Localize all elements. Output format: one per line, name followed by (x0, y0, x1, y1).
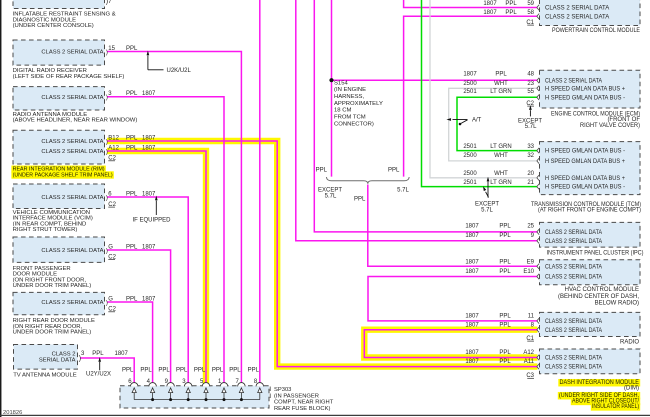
module radio antenna module caption (13, 112, 138, 124)
module radio antenna module (13, 87, 156, 110)
svg-text:(LEFT SIDE OF REAR PACKAGE SHE: (LEFT SIDE OF REAR PACKAGE SHELF) (13, 74, 125, 80)
engine option selector brace EXCEPT 5.7L / 5.7L (326, 177, 409, 184)
module instrument panel cluster IPC (465, 222, 640, 247)
module digital radio receiver (13, 40, 138, 65)
svg-text:CLASS 2 SERIAL DATA: CLASS 2 SERIAL DATA (41, 149, 103, 155)
wire PPL 1807 radio antenna pin3 to SP303 pin1 (107, 97, 224, 384)
svg-text:S154: S154 (334, 80, 348, 86)
svg-text:CLASS 2 SERIAL DATA: CLASS 2 SERIAL DATA (545, 79, 602, 85)
svg-text:201826: 201826 (3, 410, 22, 416)
svg-text:59: 59 (527, 1, 534, 7)
module engine control module ECM (463, 70, 640, 108)
SP303 pin 4 connector (149, 383, 157, 400)
svg-text:RIGHT STRUT TOWER): RIGHT STRUT TOWER) (13, 227, 78, 233)
svg-text:1807: 1807 (142, 135, 156, 141)
svg-text:CLASS 2 SERIAL DATA: CLASS 2 SERIAL DATA (545, 365, 602, 371)
svg-text:PPL: PPL (316, 167, 328, 173)
svg-text:LT GRN: LT GRN (490, 180, 511, 186)
svg-text:2501: 2501 (463, 144, 477, 150)
module radio (465, 312, 640, 336)
svg-text:CLASS 2 SERIAL DATA: CLASS 2 SERIAL DATA (545, 239, 602, 245)
svg-text:2501: 2501 (463, 180, 477, 186)
svg-text:1807: 1807 (465, 350, 479, 356)
svg-text:1807: 1807 (465, 224, 479, 230)
SP303 pin 9 connector (167, 383, 175, 400)
svg-text:E10: E10 (523, 269, 534, 275)
svg-text:HARNESS,: HARNESS, (334, 94, 364, 100)
svg-text:A/T: A/T (472, 118, 482, 124)
svg-text:TV ANTENNA MODULE: TV ANTENNA MODULE (13, 373, 77, 379)
svg-text:CLASS 2 SERIAL DATA: CLASS 2 SERIAL DATA (41, 95, 103, 101)
svg-text:(DIM): (DIM) (624, 386, 639, 392)
SP303 bus junction dot (240, 398, 243, 401)
svg-text:1807: 1807 (142, 191, 156, 197)
wire PPL 1807 right rear door pinG to SP303 pin4 (107, 302, 153, 384)
splice pack SP303 label (270, 387, 334, 413)
svg-text:(ABOVE HEADLINER, NEAR REAR WI: (ABOVE HEADLINER, NEAR REAR WINDOW) (13, 118, 138, 124)
svg-text:58: 58 (527, 10, 534, 16)
svg-text:G: G (108, 296, 113, 302)
wire PPL 1807 splice S154 to ECM pin48 (332, 79, 538, 81)
svg-text:32: 32 (527, 153, 534, 159)
svg-text:PPL: PPL (122, 368, 134, 374)
module dash integration module DIM caption (558, 379, 640, 411)
svg-text:(IN PASSENGER: (IN PASSENGER (274, 393, 319, 399)
svg-text:PPL: PPL (499, 224, 511, 230)
svg-text:H SPEED GMLAN DATA BUS -: H SPEED GMLAN DATA BUS - (545, 95, 625, 101)
svg-text:RADIO: RADIO (620, 339, 639, 345)
svg-text:POWERTRAIN CONTROL MODULE: POWERTRAIN CONTROL MODULE (552, 28, 640, 34)
svg-text:PPL: PPL (92, 351, 104, 357)
svg-text:1807: 1807 (465, 359, 479, 365)
svg-text:20: 20 (527, 171, 534, 177)
module HVAC control module caption (558, 287, 639, 307)
svg-text:H SPEED GMLAN DATA BUS -: H SPEED GMLAN DATA BUS - (545, 185, 625, 191)
svg-text:PPL: PPL (194, 368, 206, 374)
page border left edge (0, 0, 2, 417)
svg-text:CLASS 2 SERIAL DATA: CLASS 2 SERIAL DATA (545, 6, 609, 12)
svg-text:CLASS 2 SERIAL DATA: CLASS 2 SERIAL DATA (41, 300, 103, 306)
svg-text:(IN ENGINE: (IN ENGINE (334, 87, 366, 93)
svg-text:FROM TCM: FROM TCM (334, 115, 366, 121)
SP303 bus junction dot (187, 398, 190, 401)
svg-text:(BEHIND CENTER OF DASH,: (BEHIND CENTER OF DASH, (558, 294, 639, 300)
svg-text:(AT RIGHT FRONT OF ENGINE COMP: (AT RIGHT FRONT OF ENGINE COMPT) (538, 208, 641, 214)
svg-text:PPL: PPL (126, 145, 138, 151)
module right rear door module (13, 292, 156, 314)
svg-text:E9: E9 (527, 259, 535, 265)
svg-text:CLASS 2 SERIAL DATA: CLASS 2 SERIAL DATA (545, 14, 609, 20)
svg-text:CLASS 2 SERIAL DATA: CLASS 2 SERIAL DATA (545, 328, 602, 334)
svg-text:1807: 1807 (465, 313, 479, 319)
svg-text:48: 48 (527, 72, 534, 78)
wire PPL 1807 front passenger door pinG to SP303 pin9 (107, 250, 171, 384)
splice pack SP303 box (120, 386, 269, 408)
svg-text:1807: 1807 (483, 1, 497, 7)
svg-text:PPL: PPL (499, 269, 511, 275)
U2K/U2L usage arrow and label (147, 51, 192, 74)
module TCM caption (531, 202, 641, 214)
svg-text:COMPT, NEAR RIGHT: COMPT, NEAR RIGHT (274, 400, 334, 406)
svg-text:PPL: PPL (499, 350, 511, 356)
svg-text:H SPEED GMLAN DATA BUS -: H SPEED GMLAN DATA BUS - (545, 149, 625, 155)
svg-text:1807: 1807 (142, 296, 156, 302)
svg-text:5.7L: 5.7L (481, 208, 493, 214)
highlight band RADIO pin8 to DIM A12 wire (364, 330, 537, 358)
TCM except 5.7L note with arrows (475, 177, 499, 214)
wire PPL vertical to SP303 pin8 from top edge (259, 0, 261, 384)
module right rear door module caption (13, 318, 95, 336)
svg-text:CLASS 2 SERIAL DATA: CLASS 2 SERIAL DATA (41, 50, 103, 56)
svg-text:B12: B12 (108, 135, 119, 141)
svg-text:PPL: PPL (499, 233, 511, 239)
module radio caption (620, 339, 639, 345)
svg-text:21: 21 (527, 180, 534, 186)
svg-text:EXCEPT: EXCEPT (475, 201, 499, 207)
U2Y/U2X usage arrow and label (86, 357, 111, 378)
svg-text:55: 55 (527, 89, 534, 95)
svg-text:1807: 1807 (142, 145, 156, 151)
svg-text:5.7L: 5.7L (397, 188, 409, 194)
wire PPL 1807 brace right branch to PCM pin58 (404, 16, 538, 176)
svg-text:CONNECTOR): CONNECTOR) (334, 121, 374, 127)
module dash integration module DIM (465, 349, 640, 374)
svg-text:CLASS 2 SERIAL DATA: CLASS 2 SERIAL DATA (545, 356, 602, 362)
SP303 pin 8 connector (256, 383, 264, 400)
wire PPL 1807 RIM pinA12 to SP303 pin5 (107, 151, 206, 384)
module vehicle communication interface module VCIM caption (13, 210, 93, 233)
module TV antenna module (14, 345, 129, 370)
svg-text:PPL: PPL (126, 244, 138, 250)
page border bottom edge (0, 414, 650, 416)
svg-text:APPROXIMATELY: APPROXIMATELY (334, 101, 383, 107)
svg-text:1807: 1807 (465, 269, 479, 275)
SP303 bus junction dot (205, 398, 208, 401)
svg-text:5.7L: 5.7L (325, 194, 337, 200)
svg-text:PPL: PPL (140, 368, 152, 374)
svg-text:U2Y/U2X: U2Y/U2X (86, 372, 111, 378)
svg-text:1807: 1807 (465, 322, 479, 328)
svg-text:WHT: WHT (494, 171, 508, 177)
module front passenger door module caption (13, 266, 92, 289)
svg-text:1807: 1807 (465, 259, 479, 265)
wire PPL splice S154 vertical (331, 0, 333, 177)
wire PPL 1807 RADIO pin8 to DIM pinA12 (364, 330, 537, 358)
svg-text:A12: A12 (523, 350, 534, 356)
svg-text:5.7L: 5.7L (525, 124, 537, 130)
svg-text:PPL: PPL (176, 368, 188, 374)
module PCM caption (552, 28, 640, 34)
svg-text:2500: 2500 (463, 153, 477, 159)
svg-text:1807: 1807 (142, 91, 156, 97)
svg-text:PPL: PPL (388, 167, 400, 173)
svg-text:UNDER DOOR TRIM PANEL): UNDER DOOR TRIM PANEL) (13, 330, 92, 336)
module TV antenna caption (13, 373, 77, 379)
svg-text:U2K/U2L: U2K/U2L (167, 68, 192, 74)
svg-text:PPL: PPL (126, 91, 138, 97)
svg-text:1807: 1807 (465, 233, 479, 239)
svg-text:H SPEED GMLAN DATA BUS +: H SPEED GMLAN DATA BUS + (545, 159, 625, 165)
svg-text:1807: 1807 (483, 10, 497, 16)
wire PPL 1807 RIM pinB12 to DIM pinA11 (107, 141, 537, 367)
svg-text:2500: 2500 (463, 171, 477, 177)
module front passenger door module (13, 237, 156, 262)
svg-text:H SPEED GMLAN DATA BUS +: H SPEED GMLAN DATA BUS + (545, 176, 625, 182)
svg-text:G: G (108, 244, 113, 250)
svg-text:CLASS 2 SERIAL DATA: CLASS 2 SERIAL DATA (545, 264, 602, 270)
svg-text:HVAC CONTROL MODULE: HVAC CONTROL MODULE (565, 287, 639, 293)
splice S154 junction dot (329, 78, 333, 82)
wire WHT 2500 ECM pin23 to TCM pin32 (449, 88, 538, 161)
SP303 pin 6 connector (130, 383, 138, 400)
wire LT GRN 2501 vertical to TCM pin21 from top edge (422, 0, 538, 187)
svg-text:BELOW RADIO): BELOW RADIO) (595, 301, 639, 307)
svg-text:CLASS 2: CLASS 2 (52, 352, 76, 358)
svg-text:18 CM: 18 CM (334, 108, 351, 114)
svg-text:2501: 2501 (463, 89, 477, 95)
svg-text:PPL: PPL (126, 191, 138, 197)
svg-text:PPL: PPL (499, 313, 511, 319)
svg-text:PPL: PPL (126, 135, 138, 141)
svg-text:PPL: PPL (248, 368, 260, 374)
svg-text:PPL: PPL (229, 368, 241, 374)
wire PPL vertical to IPC pin25 from top edge (314, 0, 537, 232)
svg-text:CLASS 2 SERIAL DATA: CLASS 2 SERIAL DATA (545, 275, 602, 281)
svg-text:SP303: SP303 (274, 387, 291, 393)
SP303 bus junction dot (169, 398, 172, 401)
highlight band RIM A12 to SP303 pin5 wire (107, 151, 206, 384)
highlight band RIM B12 to DIM A11 wire (107, 141, 537, 367)
wire WHT 2500 vertical to TCM pin20 from top edge (430, 0, 537, 178)
module HVAC control module (465, 259, 640, 285)
svg-text:CLASS 2 SERIAL DATA: CLASS 2 SERIAL DATA (545, 230, 602, 236)
svg-text:1807: 1807 (115, 351, 129, 357)
SP303 pin 1 connector (220, 383, 228, 400)
wire PPL 1807 VCIM pin6 to SP303 pin3 (107, 197, 188, 384)
wire PPL 1807 TV antenna pin3 to SP303 pin6 (80, 358, 134, 384)
svg-text:RIGHT VALVE COVER): RIGHT VALVE COVER) (580, 123, 640, 129)
wire PPL brace tail to HVAC pinE9 (368, 185, 538, 267)
wire PPL 1807 to PCM pin59 from top edge (404, 0, 538, 8)
module vehicle communication interface module VCIM (13, 184, 156, 209)
svg-text:(UNDER PACKAGE SHELF TRIM PANE: (UNDER PACKAGE SHELF TRIM PANEL) (13, 172, 113, 178)
module instrument panel cluster IPC caption (547, 250, 644, 256)
svg-text:11: 11 (528, 313, 535, 319)
svg-text:UNDER DOOR TRIM PANEL): UNDER DOOR TRIM PANEL) (13, 283, 92, 289)
brace left label EXCEPT 5.7L (318, 188, 342, 200)
svg-text:H SPEED GMLAN DATA BUS +: H SPEED GMLAN DATA BUS + (545, 86, 625, 92)
svg-text:PPL: PPL (354, 197, 366, 203)
wire PPL vertical to IPC pin9 from top edge (296, 0, 538, 241)
svg-text:CLASS 2 SERIAL DATA: CLASS 2 SERIAL DATA (545, 319, 602, 325)
svg-text:PPL: PPL (158, 368, 170, 374)
svg-text:1807: 1807 (463, 72, 477, 78)
svg-text:LT GRN: LT GRN (490, 89, 511, 95)
module inflatable restraint caption (13, 12, 116, 30)
module inflatable restraint sensing and diagnostic module (cut off box) (13, 0, 105, 9)
module powertrain control module PCM (483, 0, 640, 26)
svg-text:PPL: PPL (126, 46, 138, 52)
svg-text:IF EQUIPPED: IF EQUIPPED (132, 218, 171, 224)
svg-text:A12: A12 (108, 145, 119, 151)
SP303 pin 7 connector (238, 383, 246, 400)
wire PPL digital radio receiver pin15 to SP303 pin7 (107, 52, 241, 385)
svg-text:(UNDER CENTER CONSOLE): (UNDER CENTER CONSOLE) (13, 23, 94, 29)
SP303 bus junction dot (151, 398, 154, 401)
svg-text:CLASS 2 SERIAL DATA: CLASS 2 SERIAL DATA (41, 139, 103, 145)
svg-text:WHT: WHT (494, 81, 508, 87)
module digital radio receiver caption (13, 68, 125, 80)
svg-text:A11: A11 (524, 359, 535, 365)
svg-text:REAR FUSE BLOCK): REAR FUSE BLOCK) (274, 406, 330, 412)
SP303 bus junction dot (223, 398, 226, 401)
module transmission control module TCM (463, 142, 640, 195)
svg-text:WHT: WHT (494, 153, 508, 159)
svg-text:SERIAL DATA: SERIAL DATA (39, 358, 76, 364)
svg-text:2500: 2500 (463, 81, 477, 87)
svg-text:PPL: PPL (495, 72, 507, 78)
svg-text:INSTRUMENT PANEL CLUSTER (IPC): INSTRUMENT PANEL CLUSTER (IPC) (547, 250, 644, 256)
SP303 pin 5 connector (202, 383, 210, 400)
svg-text:INSULATOR PANEL): INSULATOR PANEL) (592, 404, 639, 410)
wire PPL 1807 HVAC pinE10 to RADIO pin11 (368, 277, 537, 321)
svg-text:PPL: PPL (499, 359, 511, 365)
svg-text:PPL: PPL (505, 1, 517, 7)
svg-text:33: 33 (527, 144, 534, 150)
SP303 internal bus (134, 399, 260, 401)
svg-text:25: 25 (527, 224, 534, 230)
svg-text:LT GRN: LT GRN (490, 144, 511, 150)
svg-text:PPL: PPL (499, 259, 511, 265)
svg-text:PPL: PPL (126, 296, 138, 302)
svg-text:23: 23 (527, 81, 534, 87)
A/T note with arrows (446, 118, 481, 126)
module rear integration module RIM (13, 130, 156, 164)
svg-text:PPL: PPL (212, 368, 224, 374)
svg-text:PPL: PPL (499, 322, 511, 328)
svg-text:CLASS 2 SERIAL DATA: CLASS 2 SERIAL DATA (41, 248, 103, 254)
IF EQUIPPED usage arrow and label (132, 196, 171, 224)
svg-text:PPL: PPL (505, 10, 517, 16)
wire LT GRN 2501 ECM pin55 to TCM pin33 (457, 97, 537, 150)
splice S154 label (334, 80, 383, 127)
module rear integration module RIM caption (11, 166, 113, 179)
svg-text:15: 15 (108, 46, 115, 52)
ECM except 5.7L note with arrow (518, 105, 542, 130)
module ECM caption (551, 112, 640, 129)
svg-text:CLASS 2 SERIAL DATA: CLASS 2 SERIAL DATA (41, 195, 103, 201)
SP303 pin 3 connector (184, 383, 192, 400)
svg-text:1807: 1807 (142, 244, 156, 250)
